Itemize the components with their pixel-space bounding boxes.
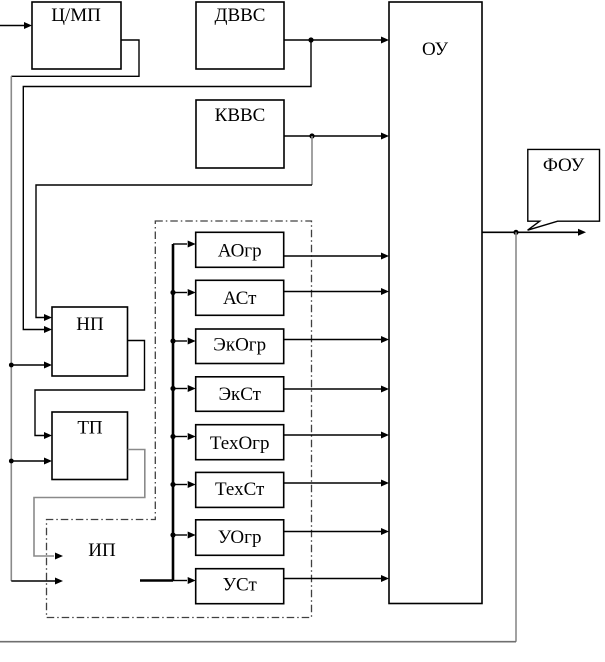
svg-text:ТП: ТП — [77, 418, 103, 439]
junction dot ДВВС — [308, 37, 313, 42]
wire branch to ТП input 2 — [11, 460, 44, 462]
svg-text:ЭкСт: ЭкСт — [218, 384, 261, 405]
svg-text:ЭкОгр: ЭкОгр — [213, 335, 266, 356]
block ASt (АСт) — [196, 280, 284, 315]
junction dot + wire bus to ЭкОгр — [170, 338, 175, 343]
wire bus to АОгр — [173, 243, 187, 245]
block C/MP (Ц/МП) — [32, 2, 121, 69]
svg-text:ДВВС: ДВВС — [215, 5, 266, 26]
bold bus feed from ИП — [140, 579, 173, 582]
block AOgr (АОгр) — [196, 232, 284, 267]
wire ЭкОгр output to ОУ — [284, 339, 381, 341]
wire ТехСт output to ОУ — [284, 482, 381, 484]
svg-text:ТехСт: ТехСт — [215, 479, 265, 500]
wire КВВС branch left and to НП input 1 — [36, 185, 312, 318]
junction dot + wire bus to АСт — [170, 290, 175, 295]
svg-text:ИП: ИП — [88, 540, 116, 561]
wire АОгр output to ОУ — [284, 255, 381, 257]
svg-text:ОУ: ОУ — [422, 39, 449, 60]
wire ДВВС output to ОУ — [284, 39, 381, 41]
block EkSt (ЭкСт) — [196, 377, 284, 412]
wire КВВС branch down (grey) — [311, 136, 313, 185]
block OU (ОУ) — [389, 2, 482, 604]
wire НП output step to ТП input 1 — [35, 341, 145, 436]
dash-dot boundary (L-shape around 8 blocks and ИП) — [47, 221, 312, 618]
block USt (УСт) — [196, 569, 284, 604]
wire ТехОгр output to ОУ — [284, 434, 381, 436]
junction dot КВВС — [309, 133, 314, 138]
wire КВВС output to ОУ — [284, 135, 381, 137]
wire branch to ИП input 2 — [11, 580, 55, 582]
wire УОгр output to ОУ — [284, 531, 381, 533]
wire ЭкСт output to ОУ — [284, 388, 381, 390]
wire АСт output to ОУ — [284, 291, 381, 293]
junction dot ФОУ — [513, 230, 518, 235]
block TP (ТП) — [52, 412, 128, 480]
block UOgr (УОгр) — [196, 520, 284, 556]
svg-text:КВВС: КВВС — [215, 105, 266, 126]
wire input arrow into Ц/МП — [0, 22, 32, 29]
svg-text:УСт: УСт — [223, 575, 258, 596]
block TehOgr (ТехОгр) — [196, 425, 284, 460]
junction dot + wire bus to ТехСт — [170, 482, 175, 487]
svg-text:ФОУ: ФОУ — [543, 155, 585, 176]
junction dot + wire bus to УОгр — [170, 532, 175, 537]
junction dot + wire bus to ТехОгр — [170, 434, 175, 439]
block DVVS (ДВВС) — [196, 2, 284, 69]
wire branch to НП input 3 — [11, 364, 44, 366]
wire ОУ output to right with arrow — [482, 231, 578, 233]
svg-text:НП: НП — [76, 314, 104, 335]
svg-text:УОгр: УОгр — [218, 527, 262, 548]
junction dot on left vertical at НП branch — [9, 363, 14, 368]
block EkOgr (ЭкОгр) — [196, 329, 284, 364]
bold vertical bus — [172, 244, 175, 581]
junction dot + wire bus to ЭкСт — [170, 386, 175, 391]
wire bus to УСт — [173, 580, 187, 582]
block NP (НП) — [52, 307, 128, 376]
wire bottom return line — [0, 641, 516, 643]
svg-text:Ц/МП: Ц/МП — [51, 5, 101, 26]
block KVVS (КВВС) — [196, 100, 284, 168]
svg-text:АСт: АСт — [223, 288, 257, 309]
wire down from ФОУ junction (grey) — [515, 232, 517, 641]
wire ТП output step to ИП input 1 (grey) — [34, 450, 145, 557]
wire left vertical bus from Ц/МП (grey) — [10, 76, 12, 581]
callout ФОУ — [528, 149, 600, 230]
svg-text:АОгр: АОгр — [218, 241, 262, 262]
svg-text:ТехОгр: ТехОгр — [210, 433, 270, 454]
wire Ц/МП output step — [11, 40, 139, 76]
wire ДВВС branch down and to НП input 2 — [23, 40, 311, 330]
block TehSt (ТехСт) — [196, 472, 284, 507]
junction dot on left vertical at ТП branch — [9, 459, 14, 464]
wire УСт output to ОУ — [284, 578, 381, 580]
